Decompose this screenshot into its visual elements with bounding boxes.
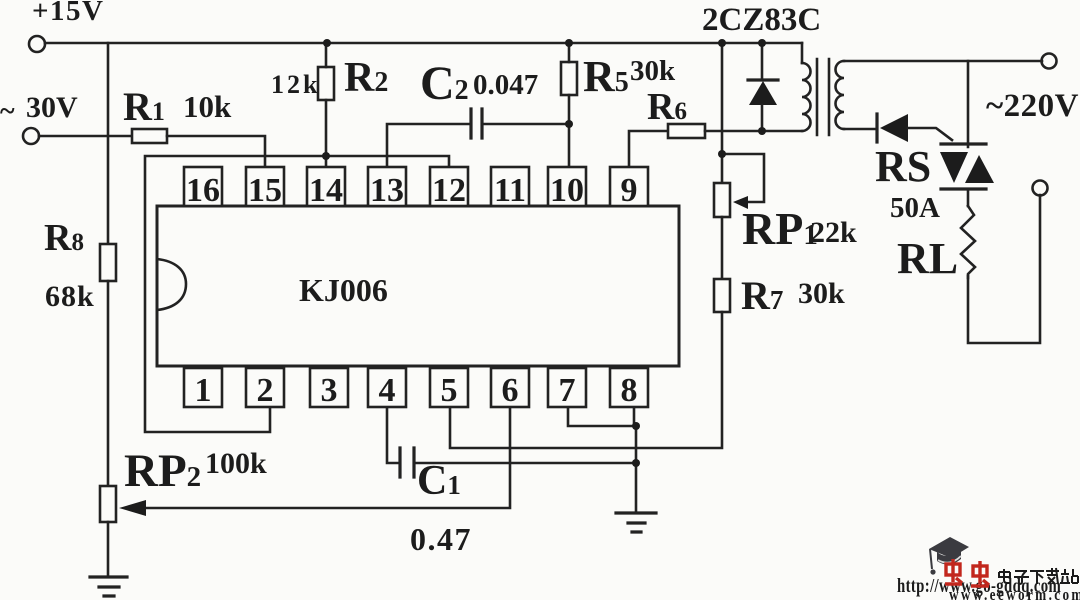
svg-text:9: 9 bbox=[621, 172, 638, 209]
svg-text:C1: C1 bbox=[417, 458, 461, 504]
IC notch bbox=[157, 259, 186, 310]
svg-text:10: 10 bbox=[550, 172, 584, 209]
svg-text:C2: C2 bbox=[420, 57, 469, 110]
svg-text:30V: 30V bbox=[26, 91, 78, 124]
wire pin4 to C1 bbox=[387, 407, 400, 463]
svg-text:RS: RS bbox=[875, 142, 931, 191]
watermark text dianzi xiazaizhan bbox=[999, 568, 1078, 584]
node RP1 wiper bbox=[718, 150, 726, 158]
svg-text:7: 7 bbox=[559, 372, 576, 409]
svg-text:2CZ83C: 2CZ83C bbox=[702, 2, 821, 38]
svg-text:12: 12 bbox=[432, 172, 466, 209]
resistor R1 bbox=[132, 129, 167, 143]
svg-text:6: 6 bbox=[502, 372, 519, 409]
node RP1 rail top bbox=[718, 39, 726, 47]
svg-text:1: 1 bbox=[195, 372, 212, 409]
potentiometer RP2 bbox=[100, 486, 116, 522]
resistor R5 bbox=[561, 62, 577, 95]
node pin14/R2 bbox=[322, 152, 330, 160]
pin 2 bbox=[246, 368, 284, 407]
arrowhead RP1 wiper bbox=[733, 196, 748, 209]
svg-text:8: 8 bbox=[621, 372, 638, 409]
svg-text:100k: 100k bbox=[205, 447, 267, 480]
pin 3 bbox=[310, 368, 348, 407]
wire RP1 to R7 bbox=[721, 217, 724, 279]
pin 5 bbox=[430, 368, 468, 407]
ground (below RP2) bbox=[90, 577, 127, 596]
terminal ~30V bbox=[23, 128, 39, 144]
wire pin2 to pin12 (around left) bbox=[145, 156, 449, 432]
svg-text:R8: R8 bbox=[44, 217, 84, 259]
svg-text:RL: RL bbox=[897, 234, 958, 283]
wire gate to triac bbox=[908, 128, 952, 140]
resistor R8 bbox=[100, 244, 116, 281]
wire R8 to RP2 bbox=[107, 281, 110, 486]
potentiometer RP1 bbox=[714, 183, 730, 217]
wire R5 to pin10 bbox=[568, 95, 571, 167]
svg-text:R5: R5 bbox=[583, 52, 629, 101]
svg-text:R2: R2 bbox=[344, 55, 388, 101]
svg-text:R7: R7 bbox=[741, 273, 783, 318]
wire R1 to pin15 bbox=[167, 136, 265, 167]
svg-text:11: 11 bbox=[494, 172, 526, 209]
capacitor C1 bbox=[400, 448, 414, 477]
wire R6 to transformer primary bottom bbox=[705, 130, 802, 133]
diode RS gate bbox=[875, 114, 878, 142]
svg-text:www.eeworm.com: www.eeworm.com bbox=[949, 586, 1080, 600]
capacitor C2 bbox=[471, 109, 482, 138]
transformer core bbox=[817, 59, 829, 135]
svg-text:3: 3 bbox=[321, 372, 338, 409]
svg-text:22k: 22k bbox=[810, 216, 857, 249]
svg-text:13: 13 bbox=[370, 172, 404, 209]
IC U1 KJ006 body bbox=[157, 206, 679, 366]
watermark chongchong red characters bbox=[945, 559, 989, 586]
wire secondary top to 220V terminal bbox=[844, 60, 1042, 63]
pin 7 bbox=[548, 368, 586, 407]
pin 10 bbox=[548, 167, 586, 206]
wire R5 top bbox=[568, 43, 571, 62]
pin 15 bbox=[246, 167, 284, 206]
wire pin6 to RP2 wiper bbox=[146, 407, 510, 508]
node diode bottom bbox=[758, 127, 766, 135]
svg-text:2: 2 bbox=[257, 372, 274, 409]
wire pin9 to R6 bbox=[629, 131, 668, 167]
resistor R6 bbox=[668, 124, 705, 138]
diode 2CZ83C bbox=[761, 43, 764, 80]
arrowhead RP2 wiper bbox=[119, 500, 146, 516]
svg-text:~220V: ~220V bbox=[986, 88, 1079, 124]
pin 9 bbox=[610, 167, 648, 206]
svg-text:RP1: RP1 bbox=[742, 203, 818, 254]
wire RL to 220V bottom terminal bbox=[968, 195, 1040, 343]
svg-text:RP2: RP2 bbox=[124, 445, 201, 497]
pin 12 bbox=[430, 167, 468, 206]
wire 30V to R1 bbox=[39, 135, 132, 138]
svg-text:0.047: 0.047 bbox=[473, 69, 538, 101]
svg-text:50A: 50A bbox=[890, 192, 940, 224]
svg-text:+15V: +15V bbox=[32, 0, 104, 27]
pin 14 bbox=[307, 167, 345, 206]
pin 1 bbox=[184, 368, 222, 407]
svg-text:12k: 12k bbox=[271, 70, 320, 99]
svg-text:30k: 30k bbox=[630, 55, 676, 87]
transformer T primary winding bbox=[801, 43, 804, 63]
pin 4 bbox=[368, 368, 406, 407]
terminal ~220V top bbox=[1042, 54, 1057, 69]
svg-text:R6: R6 bbox=[647, 86, 687, 128]
node diode top bbox=[758, 39, 766, 47]
svg-text:30k: 30k bbox=[798, 277, 845, 310]
inductor RL bbox=[961, 206, 975, 278]
watermark graduation cap bbox=[929, 537, 969, 575]
pin 16 bbox=[184, 167, 222, 206]
terminal ~220V bottom bbox=[1033, 181, 1048, 196]
node R2 top bbox=[323, 39, 331, 47]
wire C2 to R5 node bbox=[482, 123, 569, 126]
node C1 ground bbox=[632, 459, 640, 467]
wire 220V top to triac bbox=[967, 61, 970, 147]
svg-text:68k: 68k bbox=[45, 280, 95, 313]
wire triac to RL bbox=[967, 189, 970, 206]
wire RP1 wiper loop bbox=[722, 154, 764, 202]
svg-text:R1: R1 bbox=[123, 84, 165, 129]
wire ground vertical bbox=[635, 426, 638, 513]
svg-text:0.47: 0.47 bbox=[410, 521, 472, 557]
node C2/R5 bbox=[565, 120, 573, 128]
wire RP1 rail from +15V bbox=[721, 43, 724, 183]
svg-text:KJ006: KJ006 bbox=[299, 272, 388, 308]
wire secondary bottom to gate diode bbox=[844, 128, 877, 131]
triac RS bbox=[941, 144, 986, 189]
terminal +15V bbox=[29, 36, 45, 52]
pin 13 bbox=[368, 167, 406, 206]
resistor R7 bbox=[714, 279, 730, 312]
wire left rail (+15V down to R8) bbox=[107, 43, 110, 244]
svg-text:16: 16 bbox=[186, 172, 220, 209]
pin 8 bbox=[610, 368, 648, 407]
wire pin8 to ground node bbox=[633, 407, 636, 426]
wire R2 to pin14 bbox=[325, 100, 328, 167]
wire +15V top rail bbox=[45, 42, 802, 45]
transformer secondary winding bbox=[836, 61, 845, 129]
node R5 top bbox=[565, 39, 573, 47]
wire R7 to pin5 bbox=[450, 312, 722, 448]
wire R2 top bbox=[325, 43, 328, 67]
wire pin13 to C2 bbox=[387, 124, 471, 167]
pin 6 bbox=[491, 368, 529, 407]
svg-text:10k: 10k bbox=[183, 89, 232, 124]
wire C1 to ground node bbox=[414, 462, 636, 465]
svg-text:14: 14 bbox=[309, 172, 343, 209]
svg-text:4: 4 bbox=[379, 372, 396, 409]
ground (main) bbox=[616, 513, 656, 532]
svg-text:15: 15 bbox=[248, 172, 282, 209]
svg-text:5: 5 bbox=[441, 372, 458, 409]
svg-text:~: ~ bbox=[0, 96, 15, 127]
pin 11 bbox=[491, 167, 529, 206]
resistor R2 bbox=[318, 67, 334, 100]
wire RP2 to ground bbox=[107, 522, 110, 577]
node pin7/8 ground bbox=[632, 422, 640, 430]
wire pin7 to ground node bbox=[568, 407, 636, 426]
